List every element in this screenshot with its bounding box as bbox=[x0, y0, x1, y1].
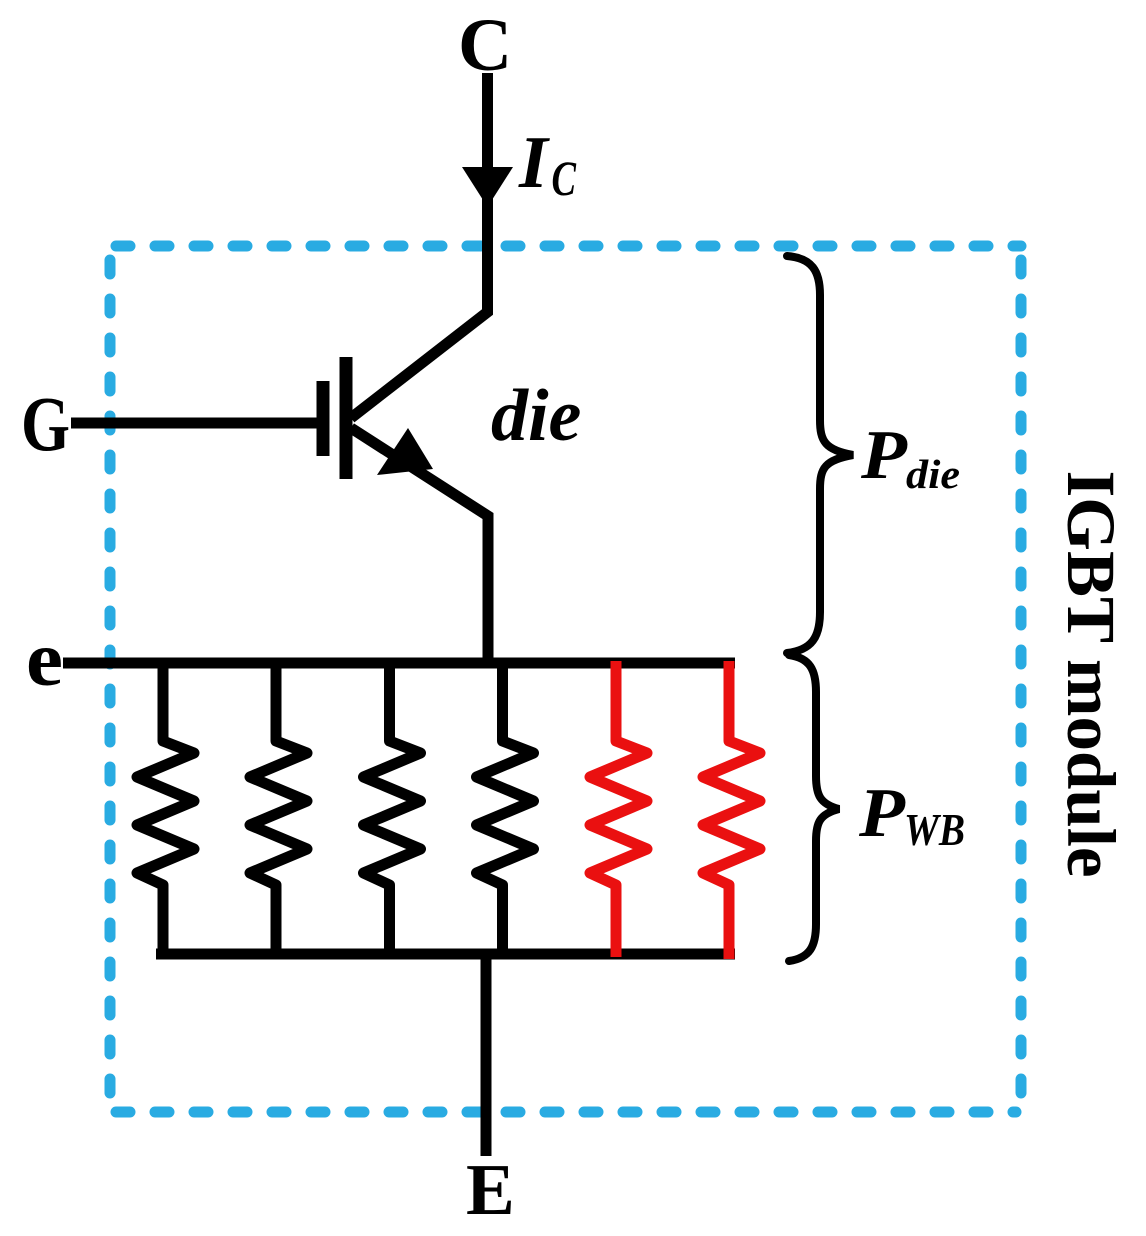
svg-text:e: e bbox=[26, 615, 63, 702]
svg-text:C: C bbox=[552, 150, 577, 206]
svg-text:P: P bbox=[860, 417, 908, 494]
svg-text:C: C bbox=[458, 4, 512, 87]
svg-text:IGBT module: IGBT module bbox=[1053, 470, 1129, 877]
svg-text:die: die bbox=[491, 375, 581, 457]
svg-text:P: P bbox=[858, 775, 906, 852]
svg-text:I: I bbox=[518, 122, 550, 204]
svg-text:E: E bbox=[466, 1149, 515, 1230]
svg-text:WB: WB bbox=[904, 805, 965, 855]
svg-text:die: die bbox=[906, 451, 960, 497]
svg-text:G: G bbox=[21, 380, 70, 467]
